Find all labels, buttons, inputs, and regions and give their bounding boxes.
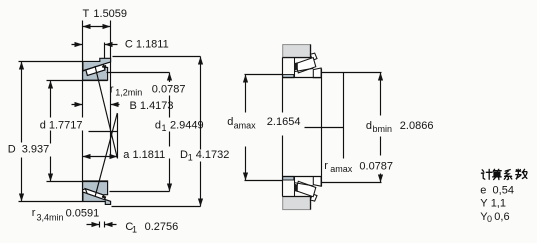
- svg-text:d 1.7717: d 1.7717: [40, 120, 83, 132]
- svg-text:r: r: [32, 207, 36, 219]
- svg-text:4.1732: 4.1732: [196, 149, 230, 161]
- axis segment through apex: [89, 131, 118, 133]
- svg-text:0,6: 0,6: [494, 211, 509, 223]
- D1 dimension: [198, 57, 203, 207]
- svg-text:d: d: [155, 120, 161, 132]
- top section: cone shaded: [83, 67, 108, 80]
- svg-text:0.0591: 0.0591: [66, 208, 100, 220]
- svg-text:1: 1: [162, 123, 167, 133]
- raceway line (bottom): [294, 183, 313, 186]
- d1 extension bottom: [110, 191, 170, 193]
- top section: roller (white): [86, 64, 105, 75]
- CJK glyph: ji (计): [481, 169, 492, 179]
- db extension bottom: [322, 182, 382, 184]
- bore line (top): [283, 77, 322, 79]
- bottom section: cone shaded: [83, 181, 108, 195]
- svg-text:1,2min: 1,2min: [115, 88, 142, 98]
- cone back face (bottom): [294, 177, 296, 197]
- svg-text:0.0787: 0.0787: [359, 161, 393, 173]
- db extension top: [322, 72, 382, 74]
- svg-text:2.0866: 2.0866: [400, 120, 434, 132]
- T dimension: [83, 24, 111, 29]
- B dimension: [72, 102, 120, 107]
- d1 extension top: [107, 72, 170, 74]
- cup right face / T extension line: [110, 21, 112, 159]
- C1 dimension: [87, 222, 117, 228]
- D1 extension top: [113, 56, 201, 58]
- svg-text:B 1.4173: B 1.4173: [130, 100, 174, 112]
- da extension top: [245, 74, 283, 76]
- mini bearing top: [296, 53, 321, 78]
- mini bearing bottom: [296, 177, 321, 202]
- helper horizontal (axis): [305, 127, 344, 129]
- apex extension line: [117, 114, 119, 159]
- svg-text:C 1.1811: C 1.1811: [125, 38, 169, 50]
- d dimension: [48, 81, 53, 182]
- CJK glyph: suan (算): [493, 169, 502, 179]
- svg-text:r: r: [110, 83, 114, 95]
- bearing left face / extension line: [82, 21, 84, 202]
- shaft sliver top: [283, 75, 294, 78]
- svg-text:amax: amax: [330, 164, 353, 174]
- C dimension: [72, 42, 118, 59]
- svg-text:1: 1: [188, 153, 193, 163]
- bottom section: outer ring (cup) shaded: [83, 181, 111, 204]
- D1 extension bottom: [112, 206, 201, 208]
- da extension bottom: [245, 180, 283, 182]
- bottom section: roller small end dark edge: [102, 196, 106, 199]
- cone back rib dark (top): [294, 62, 298, 70]
- cone front face line: [321, 69, 323, 187]
- D dimension: [19, 62, 24, 202]
- svg-text:amax: amax: [234, 120, 257, 130]
- CJK glyph: shu (数): [516, 169, 527, 179]
- top section: outer ring (cup) shaded: [83, 58, 111, 80]
- helper vertical: [343, 73, 345, 159]
- bottom section: roller (white): [85, 189, 105, 200]
- svg-text:d: d: [366, 120, 372, 132]
- da dimension: [243, 75, 248, 181]
- raceway line (top): [294, 68, 313, 71]
- shoulder face line: [282, 58, 284, 197]
- svg-text:0.2756: 0.2756: [145, 221, 179, 233]
- pressure line bottom half: [95, 113, 117, 197]
- d1 dimension: [167, 73, 172, 192]
- D outer line top (extension to D dim): [19, 61, 83, 63]
- bore line bottom: [47, 181, 108, 183]
- bore line (bottom): [283, 176, 322, 178]
- cone back face (top): [294, 58, 296, 78]
- svg-text:3,4min: 3,4min: [37, 213, 64, 223]
- svg-text:e 0,54: e 0,54: [480, 185, 514, 197]
- db dimension: [378, 73, 383, 183]
- svg-text:2.1654: 2.1654: [267, 116, 301, 128]
- svg-text:1.5059: 1.5059: [93, 8, 127, 20]
- top section: roller small end dark edge: [102, 65, 106, 68]
- D outer line bottom: [19, 201, 83, 203]
- calculation factors heading: [481, 169, 527, 179]
- bore line top: [47, 80, 108, 82]
- shaft sliver bottom: [283, 176, 294, 180]
- shaft shoulder block bottom: [283, 197, 311, 210]
- svg-text:1: 1: [132, 224, 137, 234]
- svg-text:a 1.1811: a 1.1811: [123, 149, 165, 161]
- svg-text:0: 0: [487, 214, 492, 224]
- svg-text:r: r: [324, 160, 328, 172]
- svg-text:Y 1,1: Y 1,1: [480, 198, 506, 210]
- shaft shoulder block top: [283, 45, 311, 58]
- svg-text:D 3.937: D 3.937: [8, 144, 50, 156]
- svg-text:d: d: [227, 116, 233, 128]
- svg-text:2.9449: 2.9449: [170, 120, 204, 132]
- CJK glyph: xi (系): [504, 170, 512, 180]
- cone back rib dark (bottom): [294, 184, 298, 192]
- svg-text:bmin: bmin: [373, 124, 393, 134]
- pressure line top half: [95, 66, 117, 158]
- svg-text:D: D: [180, 149, 188, 161]
- svg-text:0.0787: 0.0787: [152, 83, 186, 95]
- svg-text:T: T: [83, 8, 90, 20]
- a dimension: [83, 154, 118, 159]
